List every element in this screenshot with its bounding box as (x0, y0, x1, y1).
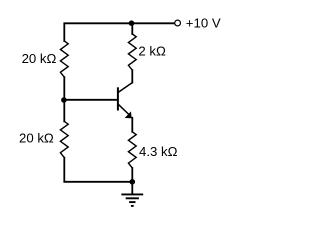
svg-text:2 kΩ: 2 kΩ (138, 44, 166, 59)
wire: 2k branch drop from top rail (131, 23, 133, 34)
svg-text:20 kΩ: 20 kΩ (19, 130, 54, 145)
resistor R2 20 kOhm (lower left) (60, 121, 68, 157)
resistor R4 4.3 kOhm (emitter) (128, 132, 136, 168)
node dot: emitter/ground junction (130, 179, 136, 185)
resistor R1 20 kOhm (upper left) (60, 41, 68, 77)
ground symbol (121, 194, 143, 206)
node dot: divider/base junction (61, 97, 67, 103)
wire: collector lead vertical (131, 70, 133, 82)
wire: emitter column to bottom rail (131, 168, 133, 182)
svg-text:+10 V: +10 V (186, 16, 221, 31)
wire: left column bottom and bottom rail to ground node (64, 158, 132, 182)
svg-text:20 kΩ: 20 kΩ (22, 51, 57, 66)
svg-text:4.3 kΩ: 4.3 kΩ (139, 144, 178, 159)
wire: base lead from divider node (64, 99, 117, 101)
terminal: +10 V open circle (175, 20, 181, 26)
transistor Q1 base bar (117, 88, 119, 109)
wire: top rail from left column to supply terminal (64, 23, 174, 41)
node dot: supply junction (129, 20, 135, 26)
transistor Q1 emitter diagonal (118, 104, 130, 116)
resistor R3 2 kOhm (collector) (128, 34, 136, 70)
transistor Q1 collector diagonal (118, 83, 132, 93)
wire: ground stub (131, 182, 133, 194)
wire: left column between R1 and R2 through base node (63, 77, 65, 121)
transistor Q1 emitter arrowhead (125, 111, 132, 118)
wire: emitter lead vertical (131, 118, 133, 132)
